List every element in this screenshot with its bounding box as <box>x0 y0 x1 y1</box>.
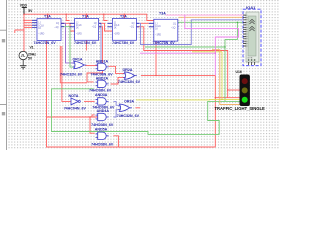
svg-text:OR3A: OR3A <box>124 99 134 103</box>
wire green AND2A feed + bottom rail <box>52 89 240 135</box>
chip T1A <box>37 19 61 41</box>
wire gap2 Q to CLK <box>98 23 112 31</box>
wire AND2A out to OR2A <box>111 77 125 84</box>
svg-text:74HC08N_6V: 74HC08N_6V <box>91 142 114 146</box>
svg-text:T1A: T1A <box>82 14 89 18</box>
svg-text:5V: 5V <box>28 9 33 13</box>
wire pink top to IOA1 <box>166 14 244 16</box>
svg-text:5V: 5V <box>28 56 33 60</box>
wire blue chip3 Q long to IOA1 <box>136 20 243 45</box>
wire blue AND3A to OR3A <box>113 101 118 105</box>
wire green mid long <box>145 39 225 101</box>
wire OR2A out long <box>141 75 240 147</box>
wire blue AND4A to OR3A <box>113 110 118 117</box>
gate AND2A <box>96 80 109 87</box>
gate AND1A <box>96 63 109 70</box>
clock source V1 <box>19 51 27 65</box>
svg-text:74HC08N_6V: 74HC08N_6V <box>89 88 112 92</box>
gate OR1A <box>73 61 87 68</box>
svg-text:74HC73N_6V: 74HC73N_6V <box>153 41 176 45</box>
wire mid red rail feeds AND4/5 <box>47 115 98 133</box>
connector IOA1 <box>243 9 261 65</box>
svg-text:T1A: T1A <box>44 15 51 19</box>
wire OR1A out to AND1A <box>85 65 97 67</box>
chip T3A <box>112 19 136 41</box>
svg-text:74HC04N_6V: 74HC04N_6V <box>64 107 87 111</box>
sheet background <box>0 0 279 150</box>
wire AND2A in1 feed <box>60 46 87 83</box>
wire hooks chip1 left pins <box>15 20 32 33</box>
wire chip4 bottom drop <box>155 40 157 75</box>
svg-text:AND3A: AND3A <box>95 93 108 97</box>
wire top pin drops chips <box>48 14 125 19</box>
svg-text:VDD: VDD <box>20 4 28 8</box>
gate AND5A <box>96 132 109 139</box>
ground <box>20 66 27 69</box>
svg-text:74HC32N_6V: 74HC32N_6V <box>117 114 140 118</box>
svg-text:74HC73N_6V: 74HC73N_6V <box>74 41 97 45</box>
wire gap1 vdd drop <box>66 14 69 20</box>
wire blue chip2 Q to AND1A <box>98 23 101 64</box>
svg-text:T2A: T2A <box>120 14 127 18</box>
svg-text:NOTA: NOTA <box>69 94 79 98</box>
wire red to light yellow row <box>228 89 240 91</box>
gate OR2A <box>123 72 137 79</box>
svg-text:74HC32N_6V: 74HC32N_6V <box>118 80 141 84</box>
svg-text:74HC73N_6V: 74HC73N_6V <box>34 41 57 45</box>
wire AND1A out to OR2A <box>109 66 125 73</box>
wire gap2 vdd drop <box>104 14 108 20</box>
svg-text:AND5A: AND5A <box>95 127 108 131</box>
wire green chip4 Q to IOA1 <box>175 22 243 39</box>
wire chip2 bottom drop <box>85 40 87 50</box>
wire AND5A out <box>113 136 118 147</box>
wire OR3A out stub <box>135 107 140 109</box>
svg-text:OR2A: OR2A <box>123 68 133 72</box>
wire long mid red chip3 nQ <box>136 27 228 98</box>
gate NOTA <box>71 98 80 105</box>
wire green chip1 nQ to OR1A <box>61 27 75 67</box>
svg-text:74HC73N_6V: 74HC73N_6V <box>112 41 135 45</box>
wire gap3 CLK feed <box>141 22 149 24</box>
gate AND3A <box>96 98 109 105</box>
wire chip1 bottom long left rail <box>47 40 216 147</box>
svg-text:IOA1: IOA1 <box>246 5 256 10</box>
wire orange to IOA1 <box>179 16 244 18</box>
wire yellow mid <box>136 52 240 100</box>
wire purple chip1 Q to OR1A <box>61 23 75 63</box>
svg-text:74HC32N_6V: 74HC32N_6V <box>60 73 83 77</box>
svg-text:AND2A: AND2A <box>96 76 109 80</box>
svg-text:AND4A: AND4A <box>97 109 110 113</box>
chip T4A <box>154 19 178 41</box>
svg-text:U16: U16 <box>236 70 242 74</box>
svg-text:T3A: T3A <box>159 11 166 15</box>
blue pin stubs chips left <box>32 20 179 27</box>
svg-text:TRAFFIC_LIGHT_SINGLE: TRAFFIC_LIGHT_SINGLE <box>215 106 266 111</box>
wire magenta long mid <box>140 52 215 54</box>
wire NOT out to AND3A <box>84 100 95 102</box>
VDD power symbol <box>22 7 27 13</box>
wire orange mid <box>212 50 240 105</box>
svg-text:V1: V1 <box>30 46 34 50</box>
wire gap1 Q to CLK <box>61 23 75 31</box>
sheet border left <box>6 0 8 150</box>
chip T2A <box>75 19 99 41</box>
wire VDD red rail top <box>24 14 154 20</box>
gate AND4A <box>96 113 109 120</box>
wire VDD stem down to V1 <box>23 14 25 51</box>
wire NOTA feed <box>62 46 71 101</box>
svg-text:74HC08N_6V: 74HC08N_6V <box>91 123 114 127</box>
gate OR3A <box>118 104 132 111</box>
svg-text:AND1A: AND1A <box>96 59 109 63</box>
svg-text:OR1A: OR1A <box>73 57 83 61</box>
wire chip2 nQ to AND2A <box>87 27 103 82</box>
wire magenta staircase <box>185 15 239 75</box>
